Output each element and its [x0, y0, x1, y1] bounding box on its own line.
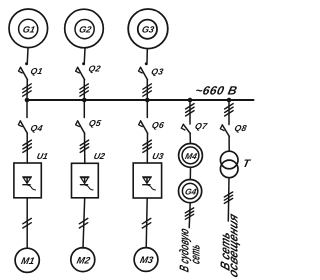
- wire bus to Q7: [189, 100, 191, 124]
- wire Q2 to bus: [83, 80, 85, 100]
- generator G3: [128, 9, 168, 49]
- breaker Q6: [139, 121, 148, 133]
- breaker Q5: [76, 121, 85, 133]
- wire Q5 to U2: [84, 133, 86, 163]
- svg-text:M4: M4: [184, 151, 198, 161]
- bus 660V: [27, 99, 254, 101]
- motor M2: [71, 248, 95, 272]
- three-phase marks lighting network: [224, 192, 232, 203]
- wire bus to Q6: [146, 100, 148, 118]
- svg-text:Q5: Q5: [88, 118, 102, 128]
- three-phase marks Q6: [143, 140, 152, 152]
- wire Q8 to T: [228, 136, 230, 151]
- svg-text:Q3: Q3: [150, 66, 164, 76]
- converter U1: [14, 163, 41, 198]
- three-phase marks Q8: [225, 104, 234, 116]
- svg-text:G4: G4: [184, 187, 198, 197]
- three-phase marks ship network: [185, 208, 193, 219]
- node bus-Q8: [227, 98, 232, 103]
- svg-text:Q6: Q6: [151, 120, 165, 130]
- wire Q3 to bus: [146, 80, 148, 100]
- three-phase marks Q4: [23, 140, 32, 152]
- breaker Q1: [19, 62, 29, 80]
- svg-text:T: T: [242, 158, 252, 170]
- svg-text:Q2: Q2: [88, 63, 102, 73]
- svg-text:Q7: Q7: [194, 121, 209, 131]
- wire G1 to Q1: [26, 48, 29, 62]
- generator G1: [9, 9, 48, 48]
- wire T to lighting network: [227, 178, 230, 221]
- converter U3: [133, 163, 161, 198]
- node bus-Q7: [188, 98, 193, 103]
- motor M1: [15, 248, 39, 272]
- wire U2 to M2: [83, 198, 85, 248]
- svg-text:M3: M3: [139, 255, 155, 266]
- breaker Q3: [139, 62, 148, 80]
- breaker Q2: [76, 62, 86, 80]
- svg-text:U3: U3: [151, 151, 164, 161]
- svg-text:~660 В: ~660 В: [194, 84, 239, 98]
- wire bus to Q4: [26, 100, 28, 118]
- svg-text:U1: U1: [36, 151, 49, 161]
- svg-text:Q4: Q4: [30, 123, 44, 133]
- wire G4 to ship network: [189, 203, 190, 228]
- generator G2: [65, 9, 104, 48]
- wire Q6 to U3: [146, 133, 148, 163]
- svg-text:G1: G1: [22, 24, 36, 34]
- breaker Q8: [220, 125, 229, 136]
- transformer T: [220, 151, 238, 178]
- wire G3 to Q3: [146, 49, 148, 62]
- three-phase marks Q7: [186, 104, 195, 116]
- wire Q4 to U1: [26, 133, 28, 163]
- node bus-Q1: [25, 98, 30, 103]
- wire bus to Q8: [228, 100, 230, 125]
- wire Q1 to bus: [26, 80, 28, 100]
- breaker Q7: [181, 124, 190, 133]
- generator G4: [179, 180, 202, 203]
- two-phase marks M1: [23, 218, 32, 228]
- converter U2: [72, 163, 99, 198]
- svg-text:G3: G3: [141, 25, 155, 35]
- wire U3 to M3: [146, 198, 147, 248]
- two-phase marks M2: [79, 218, 88, 228]
- wire Q7 to M4: [189, 133, 191, 143]
- motor M4: [179, 144, 203, 168]
- wire G2 to Q2: [83, 48, 86, 62]
- svg-text:G2: G2: [78, 25, 92, 35]
- svg-text:освещения: освещения: [226, 211, 240, 279]
- label to ship network: [178, 226, 203, 273]
- svg-text:Q1: Q1: [30, 66, 44, 76]
- svg-text:сеть: сеть: [189, 243, 203, 266]
- motor M3: [134, 248, 158, 272]
- wire M4 to G4: [189, 167, 191, 179]
- three-phase marks Q3: [143, 84, 152, 96]
- three-phase marks Q2: [80, 84, 89, 96]
- three-phase marks Q5: [80, 140, 89, 152]
- svg-text:Q8: Q8: [234, 123, 248, 133]
- two-phase marks M3: [142, 218, 151, 228]
- wire U1 to M1: [26, 198, 28, 248]
- node bus-Q2: [82, 98, 87, 103]
- node bus-Q3: [145, 98, 150, 103]
- svg-text:M2: M2: [76, 255, 92, 266]
- wire bus to Q5: [83, 100, 85, 118]
- label to lighting network: [218, 211, 241, 279]
- three-phase marks Q1: [23, 84, 32, 96]
- svg-text:U2: U2: [93, 151, 106, 161]
- svg-text:M1: M1: [20, 256, 35, 267]
- breaker Q4: [18, 121, 27, 133]
